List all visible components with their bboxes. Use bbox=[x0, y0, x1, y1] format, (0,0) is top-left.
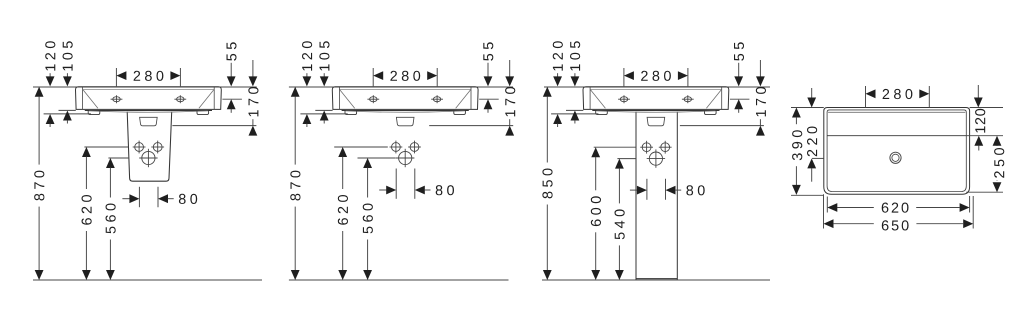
dim 280 arrows (plan) bbox=[866, 89, 876, 98]
dim 80 label bbox=[686, 185, 704, 195]
basin inner wall right bbox=[213, 87, 215, 109]
dim 620 line (plan) bbox=[837, 207, 874, 209]
dim 650 arrows (plan) bbox=[824, 219, 834, 228]
dim 220 arrows bbox=[811, 88, 813, 98]
dim 170 extension line bbox=[680, 125, 764, 127]
pedestal bbox=[636, 112, 677, 280]
dim 120 label bbox=[553, 41, 563, 70]
bottom extension line left bbox=[791, 194, 824, 196]
fixing hole left bbox=[640, 141, 653, 154]
dim 280 extension lines bbox=[623, 68, 625, 86]
dim 870 label bbox=[290, 171, 300, 201]
dim 280 label bbox=[390, 71, 420, 81]
dim 650 label (plan) bbox=[882, 220, 909, 230]
tap hole left bbox=[367, 95, 379, 103]
dim 80 arrows bbox=[379, 189, 386, 191]
dim 870 line bbox=[291, 87, 300, 97]
dim 55 label bbox=[227, 42, 237, 60]
top edge extension line right bbox=[970, 107, 1003, 109]
drain hole bbox=[647, 149, 665, 167]
dim 55 extension line bbox=[730, 98, 750, 100]
dim 280 arrows bbox=[116, 71, 126, 80]
dim 620 extension lines (plan) bbox=[826, 197, 828, 213]
drain hole bbox=[396, 149, 414, 167]
basin outer outline (plan) bbox=[824, 108, 970, 195]
tap hole right bbox=[174, 95, 186, 103]
floor line bbox=[289, 279, 509, 281]
floor line bbox=[542, 279, 770, 281]
dim 540 line bbox=[615, 159, 624, 169]
dim 105 label bbox=[570, 41, 580, 70]
dim 390 line bbox=[792, 108, 801, 118]
dim 540 extension line bbox=[617, 158, 636, 160]
dim 55 arrows bbox=[487, 63, 489, 77]
dim 170 arrows bbox=[509, 60, 511, 77]
dim 620 line bbox=[82, 147, 91, 157]
dim 620 label bbox=[338, 195, 348, 225]
dim 105 arrows bbox=[323, 73, 325, 77]
floor line bbox=[33, 279, 262, 281]
tap hole right bbox=[682, 95, 694, 103]
bowl chamfer right bbox=[199, 90, 214, 108]
dim 850 line bbox=[543, 87, 552, 97]
dim 620 label bbox=[82, 195, 92, 225]
drain boss bbox=[647, 117, 665, 126]
bowl chamfer right bbox=[706, 90, 721, 108]
dim 105 arrows bbox=[66, 73, 68, 77]
basin apron lower edge bbox=[85, 110, 212, 112]
dim 620 line bbox=[338, 147, 347, 157]
dim 280 extension lines (plan) bbox=[865, 86, 867, 108]
dim 105 extension line bbox=[566, 109, 583, 111]
foot left bbox=[596, 111, 608, 115]
foot left bbox=[345, 111, 357, 115]
semi-pedestal bbox=[127, 112, 172, 182]
wall top reference line bbox=[33, 86, 257, 88]
dim 250 label bbox=[994, 148, 1004, 178]
basin inner rim line bbox=[83, 88, 215, 90]
dim 55 extension line bbox=[479, 98, 499, 100]
dim 620 arrows (plan) bbox=[827, 203, 837, 212]
dim 560 line bbox=[363, 158, 372, 168]
dim 80 arrows bbox=[122, 198, 129, 200]
basin bottom curve bbox=[89, 111, 208, 112]
basin inner outline (plan) bbox=[827, 110, 966, 192]
dim 120 label bbox=[45, 41, 55, 70]
dim 55 extension line bbox=[222, 98, 242, 100]
bowl chamfer right bbox=[456, 90, 471, 108]
bowl chamfer left bbox=[591, 90, 606, 108]
dim 120 arrows bbox=[306, 73, 308, 77]
bowl chamfer left bbox=[83, 90, 98, 108]
basin inner wall left bbox=[338, 87, 340, 109]
bowl chamfer left bbox=[340, 90, 355, 108]
tap hole left bbox=[111, 95, 123, 103]
dim 560 extension line bbox=[358, 157, 396, 159]
basin inner wall right bbox=[721, 87, 723, 109]
dim 600 line bbox=[591, 147, 600, 157]
dim 120 arrows bbox=[49, 73, 51, 77]
dim 280 arrows bbox=[373, 71, 383, 80]
wall top reference line bbox=[544, 86, 770, 88]
fixing hole right bbox=[151, 141, 164, 154]
dim 280 extension lines bbox=[115, 68, 117, 86]
tap hole left bbox=[618, 95, 630, 103]
basin apron lower edge bbox=[342, 110, 469, 112]
dim 80 arrows bbox=[630, 189, 637, 191]
dim 120 label bbox=[302, 41, 312, 70]
basin inner wall right bbox=[470, 87, 472, 109]
fixing hole left bbox=[133, 141, 146, 154]
foot right bbox=[197, 111, 209, 115]
top edge extension line left bbox=[791, 107, 824, 109]
dim 650 line (plan) bbox=[833, 223, 874, 225]
dim 220 label bbox=[807, 127, 817, 157]
ledge extension line right bbox=[966, 135, 1003, 137]
dim 55 arrows bbox=[230, 63, 232, 77]
dim 80 label bbox=[179, 194, 197, 204]
dim 170 label bbox=[756, 87, 766, 116]
dim 80 extension lines bbox=[138, 187, 140, 207]
foot right bbox=[705, 111, 717, 115]
dim 120 arrows (plan) bbox=[977, 85, 979, 98]
foot left bbox=[88, 111, 100, 115]
fixing hole right bbox=[408, 141, 421, 154]
rear deck edge line bbox=[828, 111, 965, 113]
washbasin body (front view) bbox=[332, 87, 478, 110]
washbasin body (front view) bbox=[76, 87, 222, 110]
dim 80 label bbox=[436, 185, 454, 195]
wall top reference line bbox=[289, 86, 513, 88]
dim 105 extension line bbox=[59, 109, 76, 111]
dim 55 label bbox=[734, 42, 744, 60]
pedestal base line bbox=[636, 278, 677, 280]
dim 280 label bbox=[641, 71, 671, 81]
dim 560 label bbox=[106, 204, 116, 234]
dim 560 label bbox=[363, 204, 373, 234]
dim 170 extension line bbox=[429, 125, 513, 127]
dim 280 label (plan) bbox=[883, 89, 913, 99]
dim 105 arrows bbox=[574, 73, 576, 77]
tap hole right bbox=[431, 95, 443, 103]
dim 280 label bbox=[134, 71, 164, 81]
dim 280 extension lines bbox=[372, 68, 374, 86]
dim 120 arrows bbox=[557, 73, 559, 77]
fixing hole right bbox=[659, 141, 672, 154]
dim 540 label bbox=[615, 209, 625, 239]
drain hole (plan) bbox=[890, 152, 901, 163]
dim 870 line bbox=[35, 87, 44, 97]
basin inner wall left bbox=[589, 87, 591, 109]
fixing hole left bbox=[390, 141, 403, 154]
basin bottom curve bbox=[596, 111, 715, 112]
dim 560 line bbox=[106, 158, 115, 168]
dim 280 arrows bbox=[624, 71, 634, 80]
basin bottom curve bbox=[346, 111, 465, 112]
bowl bottom extension line right bbox=[966, 191, 1003, 193]
dim 105 extension line bbox=[315, 109, 332, 111]
dim 55 arrows bbox=[738, 63, 740, 77]
dim 560 extension line bbox=[108, 157, 128, 159]
dim 600 extension line bbox=[594, 146, 636, 148]
foot right bbox=[454, 111, 466, 115]
dim 120 extension line bbox=[300, 113, 347, 115]
dim 170 arrows bbox=[759, 60, 761, 77]
dim 120 extension line bbox=[551, 113, 598, 115]
basin inner rim line bbox=[339, 88, 471, 90]
dim 170 extension line bbox=[172, 125, 256, 127]
dim 120 label (plan) bbox=[975, 109, 985, 133]
dim 105 label bbox=[319, 41, 329, 70]
basin apron lower edge bbox=[592, 110, 719, 112]
bowl front ledge line bbox=[827, 135, 966, 137]
drain boss bbox=[396, 117, 414, 126]
dim 250 line bbox=[993, 136, 1002, 146]
basin inner rim line bbox=[590, 88, 722, 90]
basin inner wall left bbox=[82, 87, 84, 109]
dim 650 extension lines (plan) bbox=[823, 194, 825, 228]
dim 870 label bbox=[34, 171, 44, 201]
dim 620 label (plan) bbox=[882, 203, 909, 213]
dim 170 label bbox=[248, 87, 258, 116]
dim 620 extension line bbox=[84, 146, 128, 148]
dim 105 label bbox=[63, 41, 73, 70]
drain level extension line bbox=[812, 157, 824, 159]
dim 170 label bbox=[505, 87, 515, 116]
dim 600 label bbox=[591, 196, 601, 226]
dim 80 extension lines bbox=[395, 169, 397, 199]
drain boss bbox=[140, 117, 158, 126]
dim 55 label bbox=[483, 42, 493, 60]
dim 390 label bbox=[792, 130, 802, 160]
dim 80 extension lines bbox=[646, 179, 648, 200]
drain hole bbox=[139, 149, 157, 167]
dim 620 extension line bbox=[334, 146, 388, 148]
dim 850 label bbox=[542, 169, 552, 199]
dim 120 extension line bbox=[44, 113, 91, 115]
washbasin body (front view) bbox=[583, 87, 729, 110]
dim 170 arrows bbox=[252, 60, 254, 77]
